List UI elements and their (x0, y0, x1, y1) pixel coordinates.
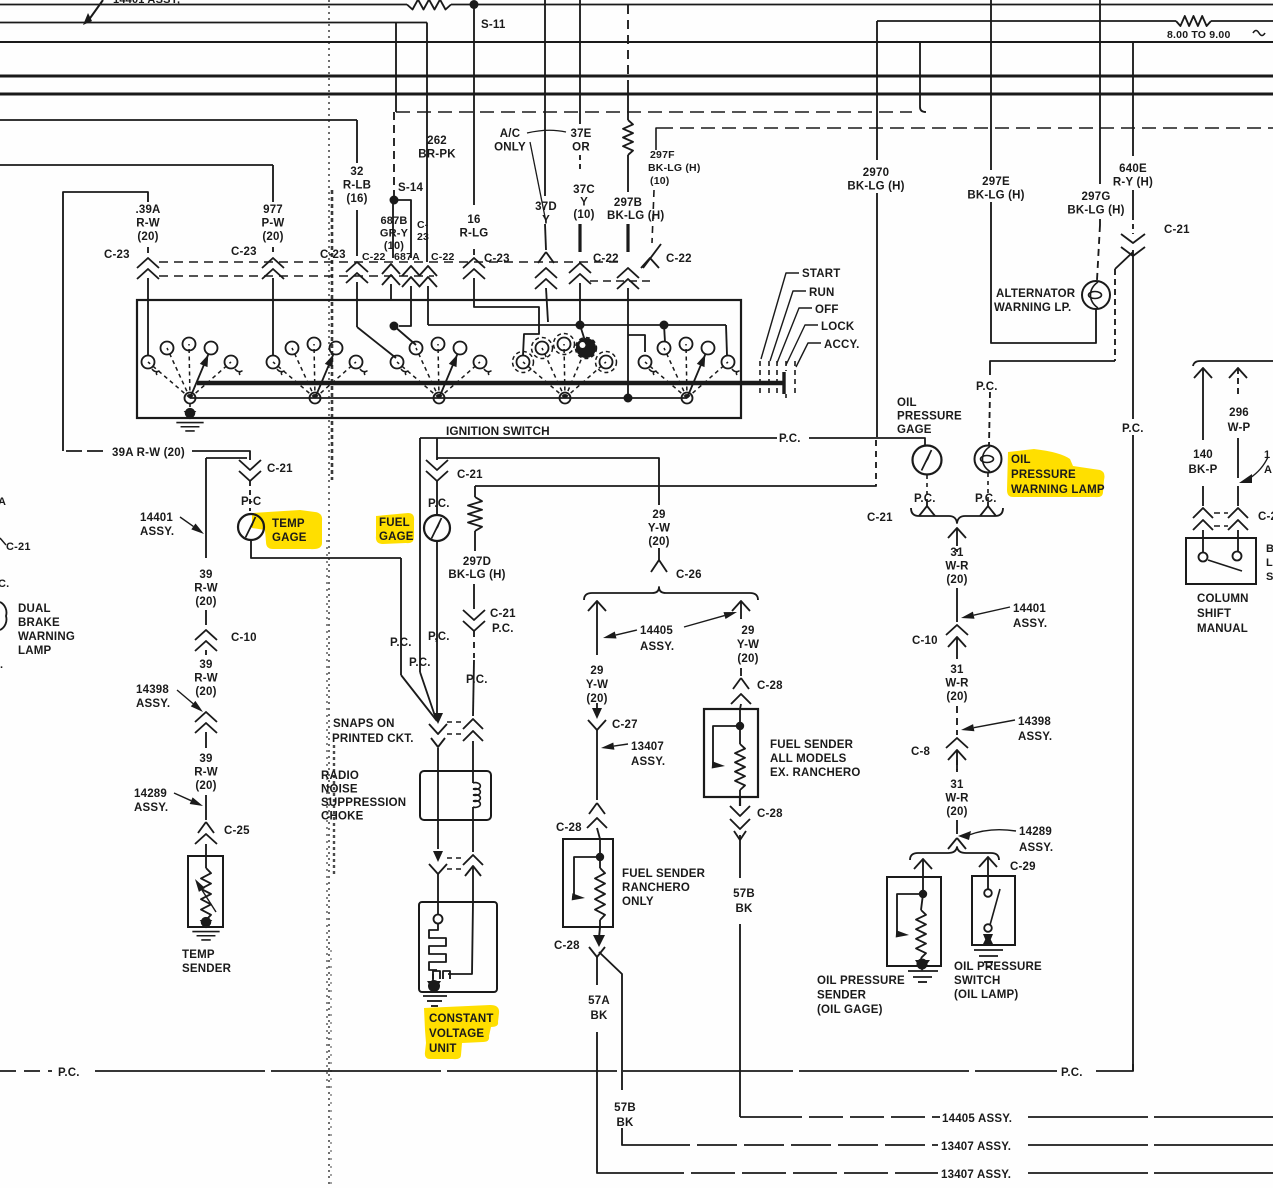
splice dot fan3 (390, 322, 399, 331)
pc line y438 (420, 437, 777, 439)
wire 297B dashes top (627, 5, 629, 83)
svg-text:SENDER: SENDER (182, 963, 232, 975)
radio choke box (420, 771, 491, 820)
svg-text:C.: C. (0, 578, 9, 590)
drop to fan5 sat2 (664, 325, 665, 342)
svg-text:687B: 687B (380, 215, 407, 227)
svg-text:(20): (20) (195, 780, 216, 792)
wire 687B (392, 200, 394, 258)
wire 297B bold (626, 224, 629, 252)
svg-text:A/C: A/C (500, 128, 520, 140)
svg-text:P.C.: P.C. (1061, 1067, 1083, 1079)
leader 14405 left (603, 632, 617, 639)
svg-text:SNAPS ON: SNAPS ON (333, 718, 395, 730)
svg-text:32: 32 (350, 166, 363, 178)
temp gauge (238, 514, 264, 540)
svg-text:OIL PRESSURE: OIL PRESSURE (954, 961, 1042, 973)
svg-text:29: 29 (652, 509, 665, 521)
wire long vertical x421 (419, 438, 421, 650)
splice 37C (576, 321, 585, 330)
svg-text:39: 39 (199, 569, 212, 581)
highlight OIL PRESSURE WARNING LAMP (1007, 449, 1105, 497)
wire seg (956, 706, 958, 735)
svg-text:C-21: C-21 (867, 512, 893, 524)
svg-text:P-W: P-W (262, 218, 285, 230)
svg-text:C-21: C-21 (6, 541, 31, 553)
diagonal dot to fan3 sat2 (394, 326, 416, 345)
connector C-23 39A (137, 258, 159, 268)
svg-text:RANCHERO: RANCHERO (622, 882, 690, 894)
leader 14398 right (961, 724, 974, 731)
wire 297F dashed (655, 146, 657, 150)
wire to C-21 temp (192, 451, 250, 460)
svg-text:297B: 297B (614, 197, 642, 209)
wire 57B to 14405 line (739, 924, 741, 1117)
svg-text:57B: 57B (614, 1102, 636, 1114)
wire 29YW right to sender (740, 668, 742, 676)
horizontal feed line y325 (428, 324, 726, 326)
wire x401 down (400, 558, 402, 675)
svg-text:START: START (802, 268, 840, 280)
wire down to rancher C-28 (596, 730, 598, 800)
resistor 297D (474, 486, 476, 497)
svg-text:P.C.: P.C. (975, 493, 997, 505)
svg-text:R-LB: R-LB (343, 180, 371, 192)
CVU ground (432, 974, 434, 983)
pivot line (190, 397, 687, 399)
label P.C. x1133 (1120, 419, 1152, 435)
leader a/c to 37E (527, 130, 566, 133)
svg-text:GR-Y: GR-Y (380, 228, 409, 240)
sender ground (917, 959, 928, 970)
wire top bus 5 (0, 93, 1273, 96)
svg-text:BK-LG (H): BK-LG (H) (448, 569, 505, 581)
svg-text:C-21: C-21 (457, 469, 483, 481)
connector 37C C-22 (569, 263, 591, 273)
svg-text:W-R: W-R (945, 678, 969, 690)
57A wire (596, 957, 598, 985)
svg-text:WARNING LP.: WARNING LP. (994, 302, 1071, 314)
svg-text:C-28: C-28 (554, 940, 580, 952)
svg-text:C-27: C-27 (612, 719, 638, 731)
wire seg (956, 820, 958, 834)
svg-text:ASSY.: ASSY. (631, 756, 665, 768)
wire 640E (1132, 42, 1134, 156)
svg-text:(20): (20) (737, 653, 758, 665)
svg-text:GAGE: GAGE (897, 424, 932, 436)
svg-text:P.C.: P.C. (976, 381, 998, 393)
svg-text:C-28: C-28 (556, 822, 582, 834)
drop to fan5 sat5 (726, 325, 727, 355)
svg-text:BK-LG (H): BK-LG (H) (1067, 205, 1124, 217)
svg-text:W-R: W-R (945, 561, 969, 573)
svg-text:C-21: C-21 (1164, 224, 1190, 236)
svg-text:687A: 687A (394, 251, 420, 263)
wire top bus 2 (0, 22, 427, 24)
arrow 296 W-P (1229, 368, 1247, 378)
svg-text:RUN: RUN (809, 287, 835, 299)
svg-text:39A R-W (20): 39A R-W (20) (112, 447, 185, 459)
svg-text:TEMP: TEMP (182, 949, 215, 961)
svg-text:RADIO: RADIO (321, 770, 359, 782)
leader 14289 right (958, 831, 971, 840)
svg-text:(20): (20) (946, 691, 967, 703)
svg-text:C-8: C-8 (911, 746, 931, 758)
svg-text:140: 140 (1193, 449, 1213, 461)
temp gauge output (251, 540, 401, 558)
thick bus bar (197, 381, 783, 386)
svg-text:BRAKE: BRAKE (18, 617, 60, 629)
ignition positions dashed pins (759, 361, 761, 397)
svg-text:262: 262 (427, 135, 447, 147)
stem to fuel C-21 (436, 438, 438, 460)
svg-text:Y-W: Y-W (586, 679, 608, 691)
connector 37D (538, 252, 554, 263)
connector fork C-26 (651, 560, 667, 572)
arrow into switch (979, 857, 997, 867)
dashes between (1214, 512, 1228, 514)
connector C-28 rancher top (589, 803, 605, 814)
wire 37C bold (578, 224, 581, 252)
below all models box (739, 797, 741, 806)
svg-text:C-23: C-23 (484, 253, 510, 265)
svg-text:R-W: R-W (194, 767, 218, 779)
fan 3 contacts (397, 362, 439, 398)
svg-text:S-14: S-14 (398, 182, 423, 194)
svg-text:P.C.: P.C. (914, 493, 936, 505)
svg-text:C-28: C-28 (757, 808, 783, 820)
wire into choke (437, 748, 439, 771)
wire feed 32 R-LB (0, 119, 357, 121)
svg-text:14405: 14405 (640, 625, 673, 637)
choke pass wire (437, 771, 439, 820)
svg-text:14398: 14398 (1018, 716, 1051, 728)
svg-text:57A: 57A (588, 995, 610, 1007)
temp sender box (188, 856, 223, 927)
lever (1208, 560, 1242, 571)
right harness line (1193, 361, 1273, 366)
svg-text:OIL: OIL (1011, 454, 1031, 466)
svg-text:R-W: R-W (194, 673, 218, 685)
connector C-28 rancher bottom (593, 935, 605, 947)
svg-text:OR: OR (572, 142, 590, 154)
svg-text:OIL: OIL (897, 397, 917, 409)
14405 line (740, 1116, 768, 1118)
rancher sender circuit (599, 839, 601, 857)
svg-text:C-23: C-23 (320, 249, 346, 261)
svg-text:R-W: R-W (136, 218, 160, 230)
connector 297F slash (643, 244, 661, 268)
arrow into sender (914, 859, 932, 869)
resistor 297B (623, 120, 633, 155)
svg-text:31: 31 (950, 779, 964, 791)
oil pressure gauge (913, 446, 942, 475)
leader 14401 (191, 524, 204, 535)
bracket C-29 (910, 847, 999, 860)
temp sender resistor (205, 856, 207, 868)
snap connector pair 1 left (433, 713, 443, 724)
svg-text:(20): (20) (262, 231, 283, 243)
scan band (328, 0, 330, 1188)
alternator warning lamp (1082, 281, 1110, 309)
wire 687A jog to dot (399, 324, 411, 326)
svg-text:14401 ASSY,: 14401 ASSY, (113, 0, 180, 6)
svg-text:COLUMN: COLUMN (1197, 593, 1249, 605)
svg-text:13407: 13407 (631, 741, 664, 753)
splice S-11 (470, 0, 479, 9)
switch lever (990, 889, 1000, 925)
svg-text:ASSY.: ASSY. (136, 698, 170, 710)
diagonals converge (401, 675, 437, 721)
svg-text:ASSY.: ASSY. (640, 641, 674, 653)
switch ground (983, 934, 993, 946)
wire 32 diagonal into fan3 (357, 327, 396, 358)
temp sender wiper arrow (195, 879, 205, 892)
wire seg c27 (596, 703, 598, 710)
snap connector pair 1 right (463, 719, 483, 729)
svg-text:(10): (10) (650, 175, 669, 187)
svg-text:OIL PRESSURE: OIL PRESSURE (817, 975, 905, 987)
connector C-21 640E (1121, 234, 1145, 243)
svg-text:GAGE: GAGE (272, 532, 307, 544)
svg-text:GAGE: GAGE (379, 531, 414, 543)
wire 16 R-LG (473, 5, 475, 206)
switch contacts (1199, 553, 1208, 562)
svg-text:UNIT: UNIT (429, 1043, 457, 1055)
svg-text:W-P: W-P (1228, 422, 1251, 434)
svg-text:13407 ASSY.: 13407 ASSY. (941, 1169, 1011, 1181)
wire 37E/37C (579, 0, 581, 124)
svg-text:14289: 14289 (134, 788, 167, 800)
connector C-29 fork (948, 838, 966, 849)
connector C-23 977 (262, 258, 284, 268)
connector C-21 fuel (426, 460, 448, 470)
svg-text:IGNITION SWITCH: IGNITION SWITCH (446, 424, 550, 438)
dashed connector ties (159, 261, 624, 263)
snap connector pair 2 left (433, 851, 443, 862)
oil pressure sender box (887, 877, 941, 966)
svg-text:DUAL: DUAL (18, 603, 51, 615)
wire 296 seg (1237, 438, 1239, 478)
choke coil (472, 771, 474, 783)
svg-text:(20): (20) (137, 231, 158, 243)
svg-text:ASSY.: ASSY. (134, 802, 168, 814)
wire branch to 39 R-W (206, 457, 247, 459)
svg-text:C-23: C-23 (231, 246, 257, 258)
svg-text:P.C.: P.C. (779, 433, 801, 445)
wire top bus 3 (0, 41, 1273, 43)
svg-text:640E: 640E (1119, 163, 1147, 175)
svg-text:FUEL: FUEL (379, 517, 410, 529)
wire 39 seg (205, 610, 207, 625)
leader 14405 right (724, 612, 738, 619)
connector C-10 left (195, 630, 217, 640)
corner to oil gauge (922, 438, 925, 445)
snap dashes 1 (447, 721, 462, 723)
svg-text:29: 29 (741, 625, 754, 637)
svg-text:EX. RANCHERO: EX. RANCHERO (770, 767, 861, 779)
svg-text:ALL MODELS: ALL MODELS (770, 753, 847, 765)
svg-text:C-22: C-22 (362, 251, 386, 263)
svg-text:31: 31 (950, 664, 964, 676)
57B branch diagonal (599, 952, 622, 1090)
snap connector pair 2 right (463, 855, 483, 865)
wire 14401 assy leader top-left (88, 0, 103, 21)
svg-text:1: 1 (1264, 449, 1270, 461)
fuel gauge (436, 481, 438, 515)
svg-text:BK-LG (H): BK-LG (H) (967, 190, 1024, 202)
connector C-28 all-models (733, 678, 749, 689)
svg-text:LAMP: LAMP (18, 645, 52, 657)
svg-text:CONSTANT: CONSTANT (429, 1013, 494, 1025)
fuel gauge output (436, 541, 438, 714)
svg-text:BK: BK (735, 903, 753, 915)
svg-text:PRINTED CKT.: PRINTED CKT. (332, 733, 414, 745)
svg-text:13407 ASSY.: 13407 ASSY. (941, 1141, 1011, 1153)
leader a/c to 37D (530, 142, 546, 222)
svg-text:PRESSURE: PRESSURE (897, 411, 962, 423)
svg-text:P.C.: P.C. (466, 674, 488, 686)
fuel sender all models box (704, 709, 758, 797)
svg-text:P-C: P-C (241, 496, 261, 508)
highlight CONSTANT VOLTAGE UNIT (424, 1005, 499, 1059)
svg-text:ONLY: ONLY (622, 896, 654, 908)
fan 1 contacts (148, 362, 190, 398)
svg-text:C-21: C-21 (267, 463, 293, 475)
diagonal branch to lamp circuit (1115, 252, 1133, 269)
wire 39A R-W riser (63, 192, 148, 451)
branch to fan5 sat1 (628, 335, 645, 352)
CVU heater element (429, 923, 446, 970)
leader 13407 small (601, 743, 614, 750)
svg-text:ASSY.: ASSY. (1019, 842, 1053, 854)
svg-text:SENDER: SENDER (817, 990, 867, 1002)
wire into CVU (437, 874, 439, 902)
svg-text:ACCY.: ACCY. (824, 339, 860, 351)
connector C-22 262 (419, 266, 437, 276)
resistor on bus 1 (407, 0, 451, 10)
svg-text:C-22: C-22 (431, 251, 455, 263)
svg-text:(10): (10) (573, 209, 594, 221)
svg-text:297D: 297D (463, 556, 491, 568)
wire into fan1 (147, 300, 149, 356)
svg-text:L: L (1266, 557, 1273, 569)
svg-text:FUEL SENDER: FUEL SENDER (622, 868, 706, 880)
svg-text:ASSY.: ASSY. (140, 526, 174, 538)
svg-text:C-28: C-28 (757, 680, 783, 692)
fan 5 contacts (645, 362, 687, 398)
connector C-25 (198, 822, 214, 833)
connector C-23 32 (346, 262, 368, 272)
stub x920 (919, 42, 921, 107)
resistor 8.00 TO 9.00 (1176, 16, 1211, 26)
connector 687A (402, 266, 420, 276)
svg-text:31: 31 (950, 547, 964, 559)
svg-text:P.C.: P.C. (492, 623, 514, 635)
svg-text:BK: BK (616, 1117, 634, 1129)
arrow 140 BK-P (1194, 368, 1212, 378)
svg-text:WARNING: WARNING (18, 631, 75, 643)
svg-text:BK-LG (H): BK-LG (H) (648, 162, 701, 174)
connector C-28 all-models bottom (730, 806, 750, 816)
wire feed 977 P-W (0, 164, 273, 166)
arrow up right C-26 (732, 601, 750, 611)
CVU contact (437, 902, 439, 914)
svg-text:SUPPRESSION: SUPPRESSION (321, 797, 406, 809)
svg-text:P.C.: P.C. (58, 1067, 80, 1079)
svg-text:PRESSURE: PRESSURE (1011, 469, 1076, 481)
highlight FUEL GAGE (376, 513, 414, 544)
svg-text:SHIFT: SHIFT (1197, 608, 1231, 620)
svg-text:A: A (1264, 464, 1272, 476)
temp sender ground (200, 920, 213, 928)
bracket C-26 (584, 587, 758, 600)
svg-text:WARNING LAMP: WARNING LAMP (1011, 484, 1105, 496)
connector C-27 (592, 708, 602, 719)
svg-text:14401: 14401 (1013, 603, 1046, 615)
svg-text:VOLTAGE: VOLTAGE (429, 1028, 484, 1040)
pc bottom line (0, 1070, 52, 1072)
svg-text:P.C.: P.C. (1122, 423, 1144, 435)
svg-text:Y-W: Y-W (648, 523, 670, 535)
connector 14398 left (195, 712, 217, 722)
svg-text:R-LG: R-LG (460, 228, 489, 240)
svg-text:A: A (0, 496, 6, 508)
connector C-23 16 (463, 258, 485, 268)
connector C-10 right (946, 625, 968, 635)
bus end bar (782, 372, 785, 394)
leader 14401 right (961, 612, 975, 619)
fork oil gage (926, 475, 928, 502)
oil pressure warning lamp (975, 446, 1002, 473)
svg-text:C-21: C-21 (490, 608, 516, 620)
640E continues (1132, 250, 1134, 1071)
svg-text:C-26: C-26 (676, 569, 702, 581)
ignition switch box (137, 300, 741, 418)
svg-text:.39A: .39A (135, 204, 160, 216)
svg-text:(20): (20) (195, 596, 216, 608)
svg-text:C-10: C-10 (231, 632, 257, 644)
wire 297G (1099, 0, 1101, 184)
svg-text:C-25: C-25 (224, 825, 250, 837)
svg-text:C-29: C-29 (1010, 861, 1036, 873)
svg-text:Y: Y (580, 197, 588, 209)
svg-text:297F: 297F (650, 149, 675, 161)
leader 14401 right edge (1239, 474, 1252, 483)
svg-text:BK-P: BK-P (1189, 464, 1218, 476)
dashed harness line 2 (659, 127, 1273, 129)
svg-text:16: 16 (467, 214, 480, 226)
connector 687B (382, 264, 400, 274)
svg-text:ALTERNATOR: ALTERNATOR (996, 288, 1076, 300)
svg-text:MANUAL: MANUAL (1197, 623, 1248, 635)
dashed harness line 1 (396, 111, 912, 113)
wire 297E (990, 0, 992, 170)
svg-text:ASSY.: ASSY. (1018, 731, 1052, 743)
svg-text:C-22: C-22 (593, 253, 619, 265)
fan 2 contacts (273, 362, 315, 398)
connector 297B (617, 268, 639, 278)
dual brake warning lamp partial (0, 602, 6, 630)
svg-text:14405 ASSY.: 14405 ASSY. (942, 1113, 1012, 1125)
svg-text:C-22: C-22 (666, 253, 692, 265)
svg-text:LOCK: LOCK (821, 321, 855, 333)
svg-text:NOISE: NOISE (321, 784, 358, 796)
connector C-8 (946, 738, 968, 748)
CVU right wire (448, 902, 473, 974)
svg-text:57B: 57B (733, 888, 755, 900)
svg-text:W-R: W-R (945, 793, 969, 805)
